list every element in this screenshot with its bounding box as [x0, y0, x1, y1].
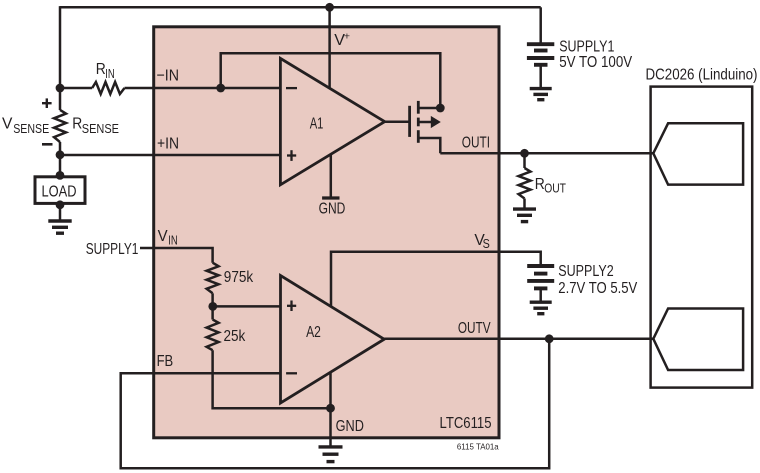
DC2026 Linduino box: [651, 87, 753, 388]
resistor 975k: [207, 263, 219, 294]
connector input lower: [653, 309, 743, 371]
transistor MOSFET: [385, 101, 441, 153]
ground below LOAD: [48, 221, 71, 233]
node LOAD top: [56, 171, 65, 180]
svg-text:A2: A2: [306, 324, 321, 341]
svg-text:SENSE: SENSE: [13, 121, 49, 136]
ground below A2: [319, 447, 343, 462]
A1 minus input mark: [286, 87, 297, 89]
battery SUPPLY1: [527, 44, 554, 65]
svg-text:SENSE: SENSE: [82, 121, 119, 136]
ground below SUPPLY1: [530, 89, 552, 100]
wire LOAD to ground: [59, 205, 62, 221]
svg-text:−IN: −IN: [157, 67, 180, 84]
svg-text:V: V: [158, 228, 168, 245]
body stub: [418, 121, 433, 124]
wire Rsense bottom to LOAD: [59, 142, 62, 176]
A2 plus input mark: [287, 305, 296, 307]
IC body LTC6115 (shaded block): [154, 27, 499, 438]
svg-text:OUTI: OUTI: [462, 135, 490, 152]
wire VS from A2 top: [331, 252, 541, 307]
node MOSFET drain: [436, 104, 445, 113]
wire -IN from Rin to A1 inverting input: [125, 87, 281, 90]
op-amp A1: [280, 58, 384, 184]
svg-text:+: +: [344, 31, 350, 43]
wire FB feedback loop: [121, 339, 550, 469]
battery SUPPLY2: [527, 266, 554, 288]
svg-text:+IN: +IN: [157, 135, 179, 152]
resistor 25k: [207, 320, 219, 351]
node Rin/Rsense junction: [56, 84, 65, 93]
source stub: [418, 138, 440, 153]
A1 plus input mark: [287, 154, 296, 156]
MOSFET body arrow: [431, 116, 441, 128]
node A2 gnd junction: [326, 404, 335, 413]
svg-text:OUT: OUT: [544, 180, 566, 195]
svg-text:GND: GND: [319, 201, 346, 218]
A2 minus input mark: [286, 372, 297, 374]
op-amp A2: [281, 276, 385, 404]
svg-text:R: R: [72, 116, 82, 133]
svg-text:6115 TA01a: 6115 TA01a: [457, 442, 499, 451]
wire top rail V+: [60, 6, 541, 9]
minus polarity mark: [42, 143, 53, 146]
svg-text:DC2026 (Linduino): DC2026 (Linduino): [646, 66, 758, 83]
ground below SUPPLY2: [530, 302, 552, 314]
node LOAD bottom: [56, 200, 65, 209]
svg-text:LOAD: LOAD: [42, 184, 77, 201]
wire 25k down and over to gnd node: [213, 350, 331, 408]
drain stub: [418, 107, 440, 110]
node +IN junction: [56, 150, 65, 159]
svg-text:SUPPLY2: SUPPLY2: [558, 263, 613, 280]
node divider junction: [208, 302, 217, 311]
ground A1 single-bar: [322, 196, 339, 199]
wire V+ down to A1: [328, 7, 331, 89]
wire A1 gnd stub: [330, 154, 333, 198]
channel segments: [417, 101, 420, 114]
wire A2 gnd stub: [329, 372, 332, 447]
wire left vertical from rail to Rsense: [59, 6, 62, 110]
load box: [35, 177, 85, 204]
wire 975k to divider node: [211, 293, 214, 319]
wire +IN from Vsense bottom to A1 non-inverting input: [60, 154, 280, 157]
svg-text:OUTV: OUTV: [458, 320, 491, 337]
wire OUTV from A2 to connector: [384, 338, 653, 341]
wire divider to A2 plus input: [213, 305, 281, 308]
svg-text:IN: IN: [105, 67, 115, 81]
svg-text:5V TO 100V: 5V TO 100V: [559, 54, 632, 71]
node V+ rail tap: [325, 3, 334, 12]
ground below ROUT: [513, 209, 536, 222]
wire OUTI from source to connector: [440, 152, 653, 155]
svg-text:SUPPLY1: SUPPLY1: [86, 241, 139, 258]
wire feedback tap up and over to MOSFET drain: [221, 53, 441, 108]
svg-text:A1: A1: [310, 116, 324, 133]
svg-text:LTC6115: LTC6115: [440, 415, 492, 432]
svg-text:2.7V TO 5.5V: 2.7V TO 5.5V: [558, 280, 637, 297]
svg-text:975k: 975k: [224, 269, 254, 286]
svg-text:FB: FB: [157, 353, 174, 370]
resistor RSENSE: [54, 110, 66, 142]
gate lead from A1 output: [385, 121, 410, 124]
node OUTI / ROUT junction: [520, 149, 529, 158]
svg-text:IN: IN: [168, 233, 178, 248]
wire VIN entry: [140, 248, 213, 263]
wire SUPPLY1 rail drop: [539, 7, 542, 44]
svg-text:V: V: [2, 115, 13, 132]
svg-text:S: S: [483, 236, 490, 251]
resistor RIN: [60, 87, 92, 90]
gate bar: [408, 106, 411, 137]
node -IN junction: [216, 84, 225, 93]
svg-text:25k: 25k: [224, 328, 247, 345]
plus polarity mark: [42, 98, 52, 108]
node OUTV junction: [545, 334, 554, 343]
svg-text:GND: GND: [336, 418, 364, 435]
resistor ROUT: [523, 153, 526, 168]
connector input upper: [653, 123, 743, 184]
